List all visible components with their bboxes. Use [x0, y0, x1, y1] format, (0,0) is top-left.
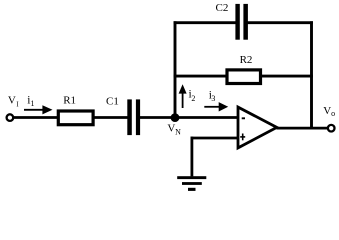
- svg-text:N: N: [175, 128, 181, 137]
- arrow i1: [24, 105, 53, 114]
- wire feedback left vertical: [174, 21, 177, 117]
- arrow i3: [204, 102, 228, 111]
- wire feedback right vertical: [310, 21, 313, 128]
- input terminal V_I circle: [7, 114, 14, 121]
- svg-text:V: V: [8, 95, 16, 107]
- svg-text:1: 1: [31, 99, 35, 108]
- svg-text:C2: C2: [216, 2, 229, 14]
- output terminal V_o circle: [328, 125, 335, 132]
- wire output horizontal: [277, 127, 329, 130]
- capacitor C1: [127, 99, 140, 135]
- wire feedback top horizontal (left of C2): [174, 21, 236, 24]
- op-amp U1: [238, 107, 277, 148]
- resistor R2: [227, 70, 261, 84]
- wire R2 branch horizontal: [174, 75, 313, 78]
- arrow i2: [179, 84, 187, 108]
- wire C1 to op-amp inverting input: [138, 116, 239, 119]
- node V_N junction dot: [171, 113, 180, 122]
- svg-text:3: 3: [211, 94, 215, 103]
- capacitor C2: [235, 4, 248, 40]
- wire noninverting input down to ground: [190, 137, 193, 177]
- resistor R1: [58, 111, 93, 125]
- svg-text:V: V: [323, 105, 331, 117]
- svg-text:C1: C1: [106, 95, 119, 107]
- svg-text:R1: R1: [63, 95, 76, 107]
- svg-text:o: o: [331, 109, 335, 118]
- wire op-amp noninverting input horizontal: [191, 137, 240, 140]
- svg-text:R2: R2: [240, 54, 253, 66]
- svg-text:2: 2: [191, 94, 195, 103]
- wire main input horizontal: [13, 116, 130, 119]
- ground: [177, 176, 206, 191]
- wire feedback top horizontal (right of C2): [248, 21, 313, 24]
